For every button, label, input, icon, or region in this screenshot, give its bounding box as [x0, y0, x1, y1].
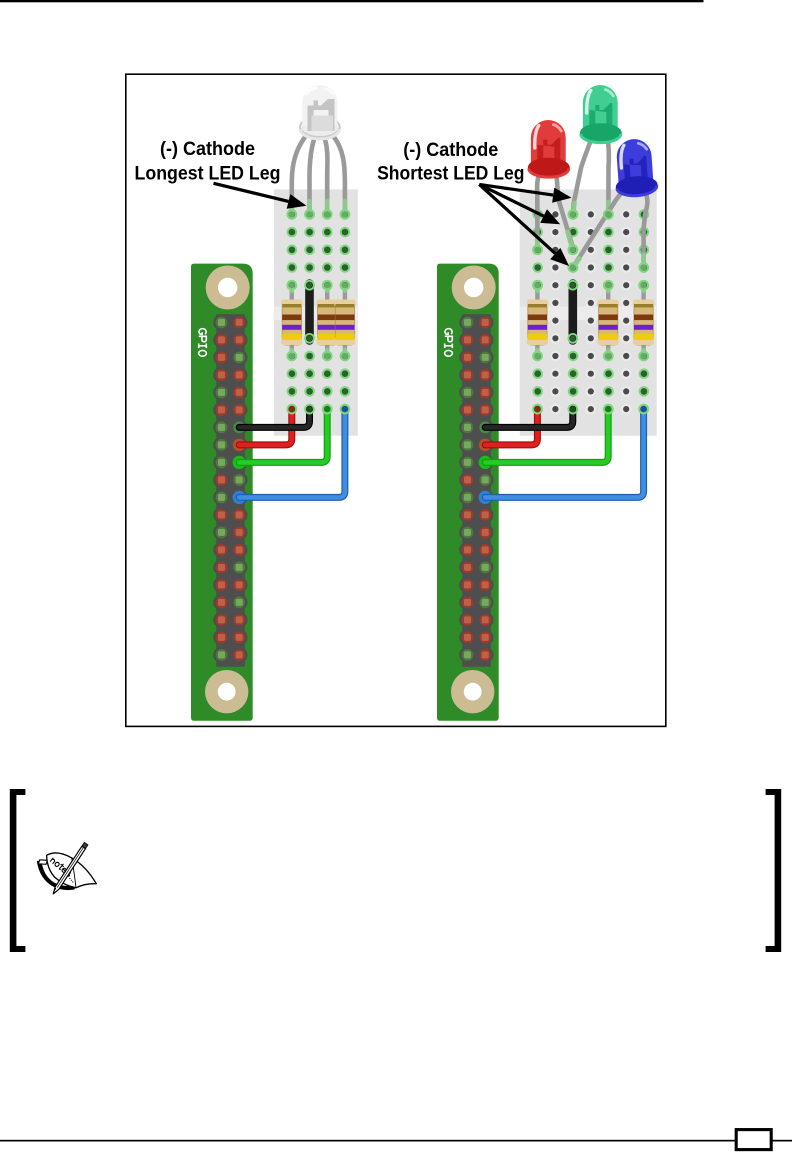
svg-text:Longest LED Leg: Longest LED Leg — [135, 162, 281, 184]
svg-text:(-) Cathode: (-) Cathode — [160, 138, 255, 160]
svg-text:(-) Cathode: (-) Cathode — [403, 139, 498, 161]
svg-text:Shortest LED Leg: Shortest LED Leg — [377, 163, 524, 185]
